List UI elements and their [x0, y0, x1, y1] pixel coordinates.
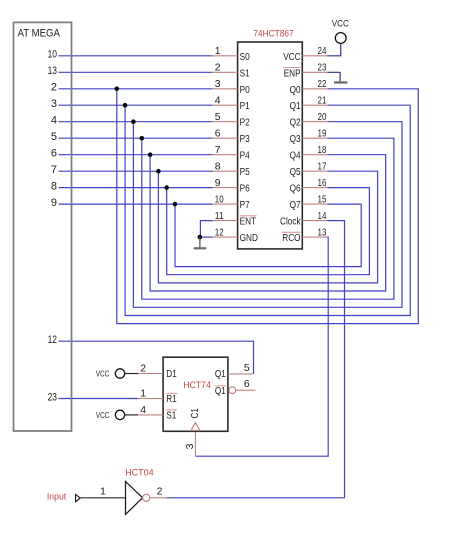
svg-text:6: 6 — [215, 128, 221, 139]
IC block AT MEGA (microcontroller box) — [14, 22, 72, 431]
power symbol VCC — [335, 33, 346, 44]
pin stub 2 (S1) — [213, 71, 238, 73]
svg-text:ENP: ENP — [284, 68, 301, 79]
junction dot on P3 wire — [140, 136, 145, 141]
junction dot on P7 wire — [173, 202, 178, 207]
svg-text:R1: R1 — [166, 394, 177, 405]
svg-text:2: 2 — [51, 82, 57, 94]
svg-text:Q4: Q4 — [290, 151, 301, 162]
wire Q6 feedback loop (pin 16 to P6) — [167, 188, 370, 275]
pin stub 23 (ENP) — [302, 71, 327, 73]
svg-text:Q6: Q6 — [290, 184, 301, 195]
inverter gate U3 HCT04 — [126, 482, 143, 515]
svg-text:P5: P5 — [240, 167, 250, 178]
ground symbol left — [199, 237, 201, 248]
wire pin 24 to VCC — [327, 43, 340, 55]
pin stub 3 (C1 clock) red vertical — [194, 431, 196, 456]
svg-text:18: 18 — [318, 145, 327, 156]
overline RCO — [282, 231, 301, 233]
svg-text:Q5: Q5 — [290, 167, 301, 178]
svg-text:15: 15 — [318, 194, 327, 205]
pin stub 11 (ENT) — [213, 220, 238, 222]
svg-text:24: 24 — [318, 46, 327, 57]
wire AT MEGA pin 6 to 74HCT867 — [59, 154, 213, 156]
pin stub 5 (P2) — [213, 121, 238, 123]
svg-text:Q7: Q7 — [290, 200, 301, 211]
svg-text:6: 6 — [244, 379, 250, 390]
svg-text:GND: GND — [240, 233, 258, 244]
svg-text:Input: Input — [47, 491, 67, 502]
svg-text:10: 10 — [48, 49, 57, 61]
svg-text:12: 12 — [215, 227, 224, 238]
svg-text:VCC: VCC — [332, 18, 349, 29]
wire AT MEGA pin 10 to 74HCT867 — [59, 55, 213, 57]
pin stub 19 (Q3) — [302, 137, 327, 139]
clock input triangle C1 — [191, 423, 200, 431]
svg-text:Clock: Clock — [280, 217, 301, 228]
pin stub 4 (P1) — [213, 104, 238, 106]
pin stub 9 (P6) — [213, 187, 238, 189]
svg-text:17: 17 — [318, 161, 327, 172]
wire AT MEGA pin 9 to 74HCT867 — [59, 203, 213, 205]
svg-text:P3: P3 — [240, 134, 250, 145]
pin stub 5 (Q1) — [228, 373, 253, 375]
svg-text:S1: S1 — [240, 68, 250, 79]
svg-text:5: 5 — [244, 363, 250, 374]
overline ENT — [240, 215, 257, 217]
pin stub 17 (Q5) — [302, 170, 327, 172]
svg-text:9: 9 — [215, 178, 221, 189]
overline R1 — [166, 393, 177, 395]
junction dot on P5 wire — [156, 169, 161, 174]
pin stub 4 (S1) — [138, 414, 163, 416]
pin stub 2 (HCT04 out) — [150, 497, 167, 499]
svg-text:14: 14 — [318, 211, 327, 222]
svg-text:VCC: VCC — [283, 52, 301, 63]
svg-text:P1: P1 — [240, 101, 250, 112]
ground bar left — [194, 247, 207, 249]
svg-text:Q0: Q0 — [290, 85, 301, 96]
svg-text:4: 4 — [215, 95, 221, 106]
wire VCC to pin — [125, 414, 138, 416]
svg-text:1: 1 — [140, 389, 146, 400]
overline Q1bar — [215, 385, 226, 387]
pin stub 24 (VCC) — [302, 55, 327, 57]
svg-text:D1: D1 — [166, 369, 177, 380]
AT MEGA box border redraw — [14, 22, 72, 431]
pin stub 8 (P5) — [213, 170, 238, 172]
inverter output bubble — [143, 494, 150, 501]
wire Q7 feedback loop (pin 15 to P7) — [175, 204, 361, 267]
svg-text:3: 3 — [51, 98, 57, 110]
wire RCO pin 13 to HCT74 C1 — [195, 237, 328, 456]
svg-text:23: 23 — [318, 63, 327, 74]
svg-text:S1: S1 — [166, 411, 176, 422]
svg-text:Q1: Q1 — [215, 386, 226, 397]
svg-text:20: 20 — [318, 112, 327, 123]
svg-text:13: 13 — [48, 65, 57, 77]
overline S1 — [166, 409, 177, 411]
svg-text:VCC: VCC — [96, 410, 109, 420]
wire Q0 feedback loop (pin 22 to P0) — [117, 89, 419, 324]
svg-text:RCO: RCO — [282, 233, 300, 244]
svg-text:13: 13 — [318, 227, 327, 238]
wire Input to inverter — [80, 497, 125, 499]
svg-text:1: 1 — [215, 46, 221, 57]
wire AT MEGA pin 23 to HCT74 R1 — [59, 398, 139, 400]
wire AT MEGA pin 2 to 74HCT867 — [59, 88, 213, 90]
svg-text:16: 16 — [318, 178, 327, 189]
junction dot on P1 wire — [123, 103, 128, 108]
wire ENT pin 11 down to junction — [200, 221, 212, 238]
svg-text:3: 3 — [215, 79, 221, 90]
junction dot on P2 wire — [131, 119, 136, 124]
svg-text:12: 12 — [48, 334, 57, 346]
junction dot GND net — [198, 235, 203, 240]
svg-text:21: 21 — [318, 95, 327, 106]
junction dot on P4 wire — [148, 152, 153, 157]
pin stub 15 (Q7) — [302, 203, 327, 205]
pin stub 12 (GND) — [213, 236, 238, 238]
svg-text:P0: P0 — [240, 85, 250, 96]
svg-text:8: 8 — [215, 161, 221, 172]
svg-text:22: 22 — [318, 79, 327, 90]
svg-text:9: 9 — [51, 197, 57, 209]
wire Clock pin 14 to HCT04 output — [167, 221, 345, 498]
svg-text:Q1: Q1 — [290, 101, 301, 112]
wire AT MEGA pin 5 to 74HCT867 — [59, 137, 213, 139]
svg-text:P4: P4 — [240, 151, 250, 162]
svg-text:ENT: ENT — [240, 217, 257, 228]
wire AT MEGA pin 8 to 74HCT867 — [59, 187, 213, 189]
svg-text:C1: C1 — [190, 408, 201, 419]
pin stub 2 (D1) — [138, 373, 163, 375]
pin stub 13 (RCO) — [302, 236, 327, 238]
svg-text:8: 8 — [51, 181, 57, 193]
svg-text:AT MEGA: AT MEGA — [18, 27, 61, 39]
svg-text:19: 19 — [318, 128, 327, 139]
wire Q1 feedback loop (pin 21 to P1) — [125, 105, 410, 315]
svg-text:74HCT867: 74HCT867 — [253, 28, 293, 39]
svg-text:4: 4 — [140, 405, 146, 416]
junction dot on P6 wire — [164, 185, 169, 190]
svg-text:7: 7 — [215, 145, 221, 156]
svg-text:Q3: Q3 — [290, 134, 301, 145]
svg-text:4: 4 — [51, 115, 57, 127]
wire Q3 feedback loop (pin 19 to P3) — [142, 138, 394, 299]
wire VCC to pin — [125, 373, 138, 375]
wire AT MEGA pin 3 to 74HCT867 — [59, 104, 213, 106]
svg-text:P7: P7 — [240, 200, 250, 211]
svg-text:P2: P2 — [240, 118, 250, 129]
power symbol VCC — [115, 369, 124, 378]
ground bar for ENP — [334, 81, 347, 83]
pin stub 10 (P7) — [213, 203, 238, 205]
svg-text:2: 2 — [140, 364, 146, 375]
IC U2 HCT74 flip-flop box — [163, 357, 228, 431]
svg-text:HCT04: HCT04 — [125, 467, 154, 478]
pin stub 7 (P4) — [213, 154, 238, 156]
pin stub 14 (Clock) — [302, 220, 327, 222]
svg-text:3: 3 — [185, 443, 196, 449]
wire GND pin 12 — [200, 236, 213, 238]
svg-text:VCC: VCC — [96, 369, 109, 379]
svg-text:7: 7 — [51, 164, 57, 176]
input port triangle — [76, 495, 81, 502]
overline ENP — [283, 67, 300, 69]
pin stub 1 (S0) — [213, 55, 238, 57]
pin stub 1 (R1) — [138, 398, 163, 400]
svg-text:2: 2 — [215, 63, 221, 74]
wire Q2 feedback loop (pin 20 to P2) — [133, 122, 402, 308]
pin stub 6 (Q1bar) — [236, 389, 256, 391]
svg-text:P6: P6 — [240, 184, 250, 195]
inverted output bubble Q1bar — [229, 387, 236, 394]
wire AT MEGA pin 13 to 74HCT867 — [59, 71, 213, 73]
svg-text:11: 11 — [215, 211, 224, 222]
svg-text:2: 2 — [157, 487, 163, 498]
svg-text:Q2: Q2 — [290, 118, 301, 129]
pin stub 18 (Q4) — [302, 154, 327, 156]
pin stub 20 (Q2) — [302, 121, 327, 123]
svg-text:5: 5 — [51, 131, 57, 143]
pin stub 6 (P3) — [213, 137, 238, 139]
wire Q5 feedback loop (pin 17 to P5) — [158, 171, 377, 283]
power symbol VCC — [115, 410, 124, 419]
svg-text:HCT74: HCT74 — [183, 379, 211, 390]
svg-text:23: 23 — [48, 391, 57, 403]
pin stub 16 (Q6) — [302, 187, 327, 189]
svg-text:S0: S0 — [240, 52, 250, 63]
svg-text:Q1: Q1 — [215, 369, 226, 380]
wire AT MEGA pin 7 to 74HCT867 — [59, 170, 213, 172]
pin stub 22 (Q0) — [302, 88, 327, 90]
svg-text:10: 10 — [215, 194, 224, 205]
wire pin 23 to ground — [327, 72, 340, 81]
svg-text:6: 6 — [51, 148, 57, 160]
pin stub 21 (Q1) — [302, 104, 327, 106]
svg-text:1: 1 — [100, 487, 106, 498]
wire AT MEGA pin 12 to HCT74 Q1 — [59, 341, 254, 374]
junction dot on P0 wire — [115, 87, 120, 92]
wire Q4 feedback loop (pin 18 to P4) — [150, 155, 386, 291]
wire AT MEGA pin 4 to 74HCT867 — [59, 121, 213, 123]
svg-text:5: 5 — [215, 112, 221, 123]
IC U1 74HCT867 counter box — [238, 42, 303, 249]
pin stub 3 (P0) — [213, 88, 238, 90]
